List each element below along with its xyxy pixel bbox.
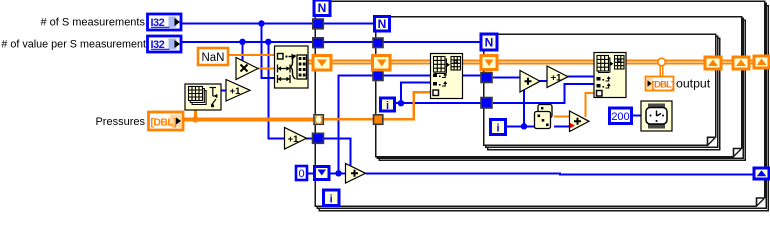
svg-text:+1: +1 [230, 86, 242, 97]
svg-text:NaN: NaN [201, 52, 224, 64]
svg-text:N: N [378, 17, 387, 31]
svg-text:# of S measurements: # of S measurements [40, 17, 145, 29]
svg-text:Pressures: Pressures [95, 116, 145, 128]
svg-text:i: i [496, 123, 499, 135]
svg-text:i: i [330, 193, 333, 205]
svg-text:N: N [318, 1, 327, 15]
svg-text:200: 200 [611, 111, 629, 123]
svg-text:+1: +1 [288, 134, 300, 145]
svg-text:0: 0 [298, 168, 304, 180]
svg-text:N: N [485, 36, 494, 50]
svg-text:[DBL]: [DBL] [151, 116, 177, 128]
svg-text:+1: +1 [551, 72, 563, 83]
svg-text:# of value per S measurement: # of value per S measurement [1, 39, 146, 51]
svg-text:[DBL]: [DBL] [652, 80, 674, 90]
svg-text:output: output [676, 77, 711, 91]
svg-text:i: i [386, 100, 389, 112]
